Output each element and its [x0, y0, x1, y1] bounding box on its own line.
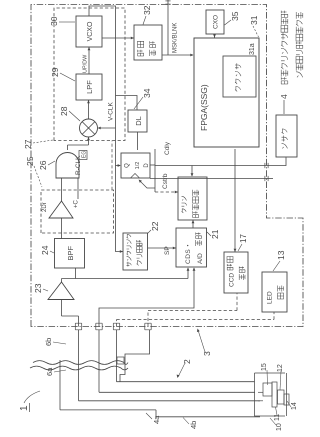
svg-text:FPGA(SSG): FPGA(SSG) — [199, 84, 209, 131]
svg-text:25: 25 — [25, 156, 35, 166]
svg-text:26: 26 — [38, 160, 48, 170]
svg-text:35: 35 — [230, 11, 240, 21]
svg-text:6a: 6a — [45, 367, 54, 376]
svg-text:24: 24 — [40, 245, 50, 255]
svg-text:31a: 31a — [249, 43, 256, 55]
svg-text:30: 30 — [49, 16, 59, 26]
svg-text:SP: SP — [164, 246, 171, 255]
svg-text:21: 21 — [210, 229, 220, 239]
svg-text:4a: 4a — [152, 415, 161, 424]
svg-text:6b: 6b — [44, 338, 53, 346]
svg-text:31: 31 — [249, 15, 259, 25]
svg-text:VCXO: VCXO — [87, 21, 94, 41]
svg-text:DL: DL — [134, 116, 143, 126]
svg-text:12: 12 — [277, 364, 284, 372]
svg-text:15: 15 — [261, 363, 268, 371]
svg-text:13: 13 — [276, 250, 286, 260]
svg-text:CDS・: CDS・ — [185, 242, 192, 264]
svg-text:4: 4 — [279, 94, 289, 99]
svg-text:2Dr: 2Dr — [42, 202, 48, 212]
svg-text:CCD: CCD — [229, 273, 236, 287]
svg-text:1/2: 1/2 — [135, 162, 141, 170]
svg-text:22: 22 — [150, 221, 160, 231]
svg-text:MSK/BLNK: MSK/BLNK — [173, 23, 179, 53]
svg-text:34: 34 — [142, 88, 152, 98]
svg-text:4b: 4b — [189, 421, 198, 429]
svg-text:17: 17 — [239, 234, 248, 243]
svg-text:LED: LED — [267, 291, 274, 304]
svg-text:14: 14 — [291, 402, 298, 410]
svg-text:Cdly: Cdly — [164, 141, 171, 155]
svg-text:LPF: LPF — [85, 80, 94, 94]
svg-text:CXO: CXO — [213, 15, 220, 29]
svg-text:Q: Q — [125, 163, 131, 168]
svg-text:EG: EG — [82, 151, 88, 158]
svg-text:BPF: BPF — [66, 245, 75, 260]
svg-text:11: 11 — [274, 414, 281, 421]
svg-text:+C: +C — [74, 199, 80, 208]
svg-text:UP/DW: UP/DW — [83, 54, 89, 73]
svg-text:32: 32 — [142, 5, 152, 15]
svg-text:3: 3 — [202, 351, 212, 356]
svg-text:29: 29 — [50, 67, 60, 77]
svg-text:23: 23 — [33, 283, 43, 293]
svg-text:A/D: A/D — [197, 253, 204, 264]
svg-text:10: 10 — [276, 423, 283, 431]
svg-text:Cstrb: Cstrb — [162, 173, 169, 189]
svg-text:V-CLK: V-CLK — [108, 102, 115, 121]
svg-text:D: D — [144, 163, 150, 168]
svg-text:27: 27 — [23, 139, 33, 149]
svg-text:1: 1 — [19, 405, 30, 411]
svg-text:28: 28 — [59, 106, 69, 116]
svg-text:2: 2 — [182, 359, 192, 364]
